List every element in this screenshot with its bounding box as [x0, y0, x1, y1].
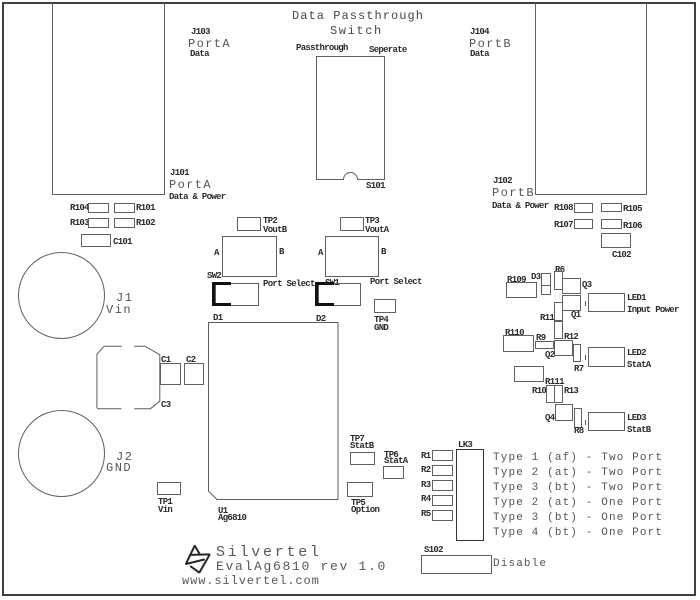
- test point TP4: [374, 299, 396, 313]
- resistor R105 label: [623, 205, 642, 214]
- transistor Q2: [554, 340, 573, 356]
- capacitor C101: [81, 234, 111, 247]
- type table line 1: [493, 453, 663, 464]
- resistor R103: [88, 218, 109, 228]
- resistor R108: [574, 203, 593, 213]
- label J104 PortB: [469, 38, 512, 50]
- resistor R105: [601, 203, 622, 212]
- label TP3: [365, 217, 379, 226]
- label Port Select (SW2): [263, 280, 315, 289]
- label A (SW1): [318, 249, 323, 258]
- logo text www.silvertel.com: [182, 575, 320, 587]
- label Port Select (SW1): [370, 278, 422, 287]
- resistor R107: [574, 219, 593, 229]
- resistor R9: [535, 341, 554, 349]
- label J103 Data: [190, 50, 209, 59]
- label Seperate: [369, 46, 407, 55]
- label B (SW2): [279, 248, 284, 257]
- label VoutB: [263, 226, 287, 235]
- resistor R111 label: [545, 378, 564, 387]
- test point TP2: [237, 217, 261, 231]
- resistor R11 label: [540, 314, 554, 323]
- title Data Passthrough Switch: [292, 10, 424, 22]
- diode D3: [541, 273, 551, 295]
- connector J1 Vin (circle): [18, 252, 105, 339]
- label D1: [213, 314, 222, 323]
- resistor R4: [432, 495, 453, 506]
- link header LK3: [456, 449, 484, 541]
- switch SW2 outline: [222, 236, 277, 277]
- capacitor C101 label: [113, 238, 132, 247]
- resistor R3: [432, 480, 453, 491]
- resistor R7 label: [574, 365, 583, 374]
- label J103 PortA: [188, 38, 231, 50]
- transistor Q4 label: [545, 414, 554, 423]
- label J103: [191, 28, 210, 37]
- resistor R109 label: [507, 276, 526, 285]
- resistor R11: [554, 302, 563, 321]
- type table line 5: [493, 513, 663, 524]
- label J104: [470, 28, 489, 37]
- label VoutA: [365, 226, 389, 235]
- label TP4: [374, 316, 388, 325]
- LED1 notch: [585, 301, 586, 306]
- type table line 4: [493, 498, 663, 509]
- transistor Q1: [562, 295, 581, 311]
- label Disable: [493, 559, 547, 570]
- resistor R101: [114, 203, 135, 213]
- connector J104/J102 PortB (stacked RJ45 outline): [535, 3, 647, 195]
- switch SW1 outline: [325, 236, 379, 277]
- resistor R108 label: [554, 204, 573, 213]
- resistor R12: [554, 321, 563, 339]
- resistor R7: [573, 344, 581, 362]
- diode D3 divider: [541, 285, 551, 286]
- resistor R4 label: [421, 495, 430, 504]
- resistor R102: [114, 218, 135, 228]
- resistor R8 label: [574, 427, 583, 436]
- label TP7: [350, 435, 364, 444]
- switch SW1 slider actuator (thick): [315, 282, 334, 306]
- test point TP7: [350, 452, 375, 465]
- label TP1: [158, 498, 172, 507]
- resistor R106: [601, 219, 622, 229]
- resistor R10 label: [532, 387, 546, 396]
- resistor R13 label: [564, 387, 578, 396]
- label Passthrough: [296, 44, 348, 53]
- label StatB (TP7): [350, 442, 374, 451]
- resistor R110: [503, 335, 534, 352]
- resistor R106 label: [623, 222, 642, 231]
- label TP6: [384, 451, 398, 460]
- switch S101 body: [316, 56, 385, 180]
- label D2: [316, 315, 325, 324]
- transistor Q4: [555, 404, 573, 421]
- label Option: [351, 506, 379, 515]
- transistor Q1 label: [571, 311, 580, 320]
- logo text Silvertel: [216, 545, 322, 560]
- label SW1: [325, 279, 339, 288]
- resistor R110 label: [505, 329, 524, 338]
- test point TP5: [347, 482, 373, 497]
- type table line 3: [493, 483, 663, 494]
- LED3: [588, 412, 625, 431]
- label SW2: [207, 272, 221, 281]
- label StatA: [627, 361, 651, 370]
- label J102 Data & Power: [492, 202, 548, 211]
- LED2 notch: [585, 355, 586, 360]
- resistor R103 label: [70, 219, 89, 228]
- LED2: [588, 347, 625, 367]
- resistor R9 label: [536, 334, 545, 343]
- label C2: [186, 356, 195, 365]
- label Vin (TP1): [158, 506, 172, 515]
- label C1: [161, 356, 170, 365]
- resistor R109: [506, 282, 537, 298]
- resistor R107 label: [554, 221, 573, 230]
- resistor R104 label: [70, 204, 89, 213]
- IC U1 Ag6810 outline (chamfered corner): [209, 323, 339, 500]
- label J104 Data: [470, 50, 489, 59]
- label TP5: [351, 499, 365, 508]
- label LED1: [627, 294, 646, 303]
- capacitor C102 label: [612, 251, 631, 260]
- resistor R5 label: [421, 510, 430, 519]
- resistor R13: [554, 385, 563, 403]
- resistor R5: [432, 510, 453, 521]
- label LED2: [627, 349, 646, 358]
- label Input Power: [627, 306, 679, 315]
- connector J103/J101 PortA (stacked RJ45 outline): [52, 3, 165, 195]
- test point TP3: [340, 217, 364, 231]
- resistor R102 label: [136, 219, 155, 228]
- logo text EvalAg6810 rev 1.0: [216, 560, 387, 573]
- diode D3 label: [531, 273, 540, 282]
- resistor R6: [554, 271, 563, 290]
- resistor R1 label: [421, 452, 430, 461]
- resistor R2: [432, 465, 453, 476]
- resistor R104: [88, 203, 109, 213]
- capacitor C3 outline (chamfered octagon with gaps): [97, 346, 160, 409]
- resistor R2 label: [421, 466, 430, 475]
- switch S101 notch: [343, 172, 358, 180]
- resistor R8: [574, 408, 582, 428]
- capacitor C102: [601, 233, 631, 248]
- test point TP6: [383, 466, 404, 479]
- label J2: [116, 451, 133, 463]
- Silvertel logo: [186, 545, 210, 573]
- switch S102: [421, 555, 492, 574]
- resistor R10: [546, 385, 555, 403]
- transistor Q3 label: [582, 281, 591, 290]
- label Ag6810: [218, 514, 246, 523]
- label J101: [170, 169, 189, 178]
- LED1: [588, 293, 625, 312]
- label J101 PortA: [169, 179, 212, 191]
- label B (SW1): [381, 248, 386, 257]
- resistor R101 label: [136, 204, 155, 213]
- resistor R6 label: [555, 266, 564, 275]
- transistor Q3: [562, 278, 581, 294]
- switch SW1 slider body: [318, 283, 361, 306]
- label Vin (J1): [106, 304, 132, 316]
- label J1: [116, 292, 133, 304]
- type table line 6: [493, 528, 663, 539]
- switch SW2 slider actuator (thick): [212, 282, 231, 306]
- LED3 notch: [585, 420, 586, 425]
- label LED3: [627, 414, 646, 423]
- label LK3: [458, 441, 472, 450]
- label A (SW2): [214, 249, 219, 258]
- test point TP1: [157, 482, 181, 495]
- capacitor C2: [184, 363, 204, 385]
- label S101: [366, 182, 385, 191]
- connector J2 GND (circle): [18, 410, 105, 497]
- switch SW2 slider body: [215, 283, 259, 306]
- label StatB: [627, 426, 651, 435]
- label J102: [493, 177, 512, 186]
- resistor R111: [514, 366, 544, 382]
- label StatA (TP6): [384, 457, 408, 466]
- label J102 PortB: [492, 187, 535, 199]
- capacitor C1: [160, 363, 181, 385]
- label GND (J2): [106, 462, 132, 474]
- label C3: [161, 401, 170, 410]
- type table line 2: [493, 468, 663, 479]
- resistor R1: [432, 450, 453, 461]
- label U1: [218, 507, 227, 516]
- label TP2: [263, 217, 277, 226]
- label S102: [424, 546, 443, 555]
- resistor R3 label: [421, 481, 430, 490]
- transistor Q2 label: [545, 351, 554, 360]
- label GND (TP4): [374, 324, 388, 333]
- resistor R12 label: [564, 333, 578, 342]
- label J101 Data & Power: [169, 193, 225, 202]
